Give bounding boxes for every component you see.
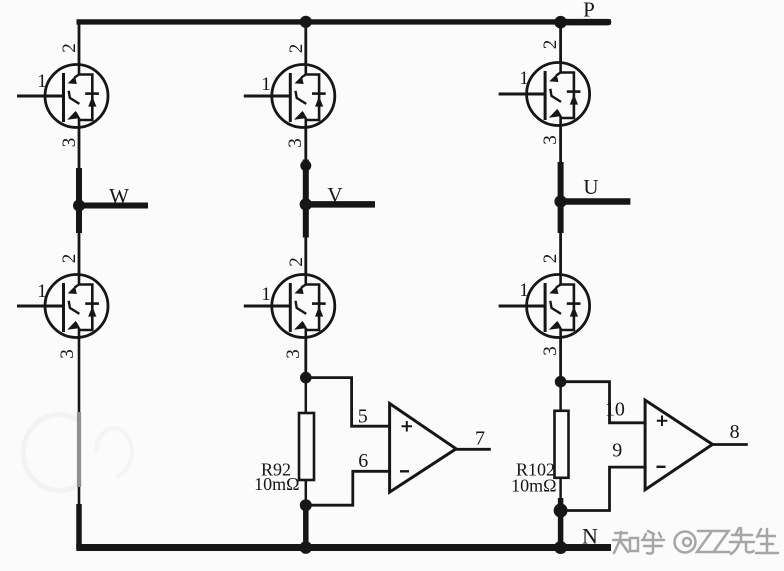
svg-text:1: 1 <box>37 71 47 92</box>
svg-text:1: 1 <box>261 74 271 95</box>
wire node to R102 <box>559 382 562 412</box>
svg-text:6: 6 <box>358 450 368 472</box>
wire P rail (top bus) <box>77 19 612 24</box>
wire U phase stub <box>561 198 631 205</box>
svg-text:1: 1 <box>37 281 47 302</box>
wire left column top (rail to Q1) <box>78 20 81 66</box>
svg-text:3: 3 <box>283 349 304 359</box>
wire left column Q2 to bottom <box>78 338 81 507</box>
svg-text:7: 7 <box>475 428 485 450</box>
resistor R92 <box>299 413 314 480</box>
svg-text:U: U <box>583 175 598 199</box>
wire op-amp U2 output <box>713 443 748 446</box>
transistor Q2 (left bottom) <box>17 273 108 339</box>
svg-text:V: V <box>327 183 342 207</box>
op-amp U1 plus sign <box>402 421 413 432</box>
svg-text:3: 3 <box>285 138 306 148</box>
svg-text:3: 3 <box>59 138 80 148</box>
watermark zhihu text <box>613 528 778 554</box>
op-amp U2 minus sign <box>657 466 666 468</box>
node P junction dot <box>554 16 567 29</box>
wire R102 to bottom node <box>559 478 562 500</box>
wire right column top (rail to Q5) <box>559 20 562 64</box>
node N junction dot <box>554 541 567 554</box>
svg-text:2: 2 <box>286 257 307 267</box>
wire middle column top (rail to Q3) <box>304 20 307 66</box>
ghost watermark blob <box>96 428 132 476</box>
node right sense top junction dot <box>555 376 567 388</box>
wire N rail (bottom bus) <box>76 544 611 551</box>
ghost watermark overlap on left wire <box>77 412 81 487</box>
node middle sense bottom junction dot <box>300 499 312 511</box>
wire middle bottom thick to rail <box>303 505 309 549</box>
wire P rail right cap <box>561 19 608 26</box>
wire op-amp U2 pin 10 input <box>561 382 646 423</box>
wire R92 to bottom node <box>305 480 308 505</box>
wire right column thick U segment <box>558 162 564 233</box>
transistor Q4 (middle bottom) <box>244 273 335 339</box>
wire W phase stub <box>79 203 148 209</box>
svg-text:N: N <box>582 524 598 549</box>
svg-text:10mΩ: 10mΩ <box>254 474 299 494</box>
svg-text:8: 8 <box>730 421 740 443</box>
transistor Q3 (middle top) <box>244 63 335 129</box>
op-amp U1 minus sign <box>400 470 409 472</box>
svg-text:2: 2 <box>540 40 561 50</box>
svg-text:2: 2 <box>59 43 80 53</box>
svg-text:3: 3 <box>540 346 561 356</box>
svg-text:W: W <box>109 184 129 208</box>
transistor Q6 (right bottom) <box>499 273 590 339</box>
wire middle column Q4 to node <box>304 338 307 378</box>
wire right column Q5 to thick <box>559 126 562 164</box>
wire node to R92 <box>305 378 308 414</box>
svg-text:1: 1 <box>519 280 529 301</box>
node W junction dot <box>73 200 85 212</box>
svg-text:1: 1 <box>519 68 529 89</box>
node right sense bottom junction dot <box>554 504 568 518</box>
wire op-amp U1 pin 5 input <box>306 378 390 427</box>
ghost watermark arc bottom-left <box>23 414 82 490</box>
svg-text:10mΩ: 10mΩ <box>511 476 556 496</box>
svg-text:5: 5 <box>358 406 368 428</box>
wire left column Q1 to thick <box>78 128 81 169</box>
wire left column thick to Q2 <box>78 233 81 275</box>
wire V phase stub <box>306 201 375 208</box>
wire right bottom thick to rail <box>558 498 564 549</box>
svg-text:P: P <box>583 0 595 22</box>
node middle rail junction dot <box>300 541 313 554</box>
wire op-amp U1 pin 6 input <box>306 471 390 505</box>
node middle top rail junction dot <box>300 16 312 28</box>
op-amp U2 plus sign <box>657 416 668 427</box>
wire right column Q6 to node <box>559 338 562 382</box>
svg-text:1: 1 <box>261 284 271 305</box>
svg-text:3: 3 <box>540 135 561 145</box>
svg-text:2: 2 <box>540 254 561 264</box>
svg-text:9: 9 <box>612 440 622 462</box>
wire middle column thick to Q4 <box>304 238 307 275</box>
wire right column thick to Q6 <box>559 233 562 275</box>
node V junction dot <box>300 198 312 210</box>
svg-text:2: 2 <box>286 44 307 54</box>
svg-text:10: 10 <box>605 398 625 420</box>
transistor Q5 (right top) <box>499 61 590 127</box>
wire middle column thick V segment <box>303 160 309 238</box>
op-amp U2 <box>645 400 712 490</box>
node U junction dot <box>554 195 566 207</box>
op-amp U1 <box>390 404 457 493</box>
node V upper junction dot <box>300 160 311 171</box>
transistor Q1 (left top) <box>17 63 108 129</box>
wire middle column Q3 to thick <box>304 128 307 162</box>
resistor R102 <box>555 411 569 478</box>
wire left column thick W segment <box>76 168 82 233</box>
wire left column bottom thick <box>76 504 82 549</box>
svg-text:3: 3 <box>57 349 78 359</box>
svg-text:2: 2 <box>59 254 80 264</box>
node middle sense top junction dot <box>300 372 312 384</box>
wire op-amp U2 pin 9 input <box>561 467 646 510</box>
wire op-amp U1 output <box>456 448 491 451</box>
